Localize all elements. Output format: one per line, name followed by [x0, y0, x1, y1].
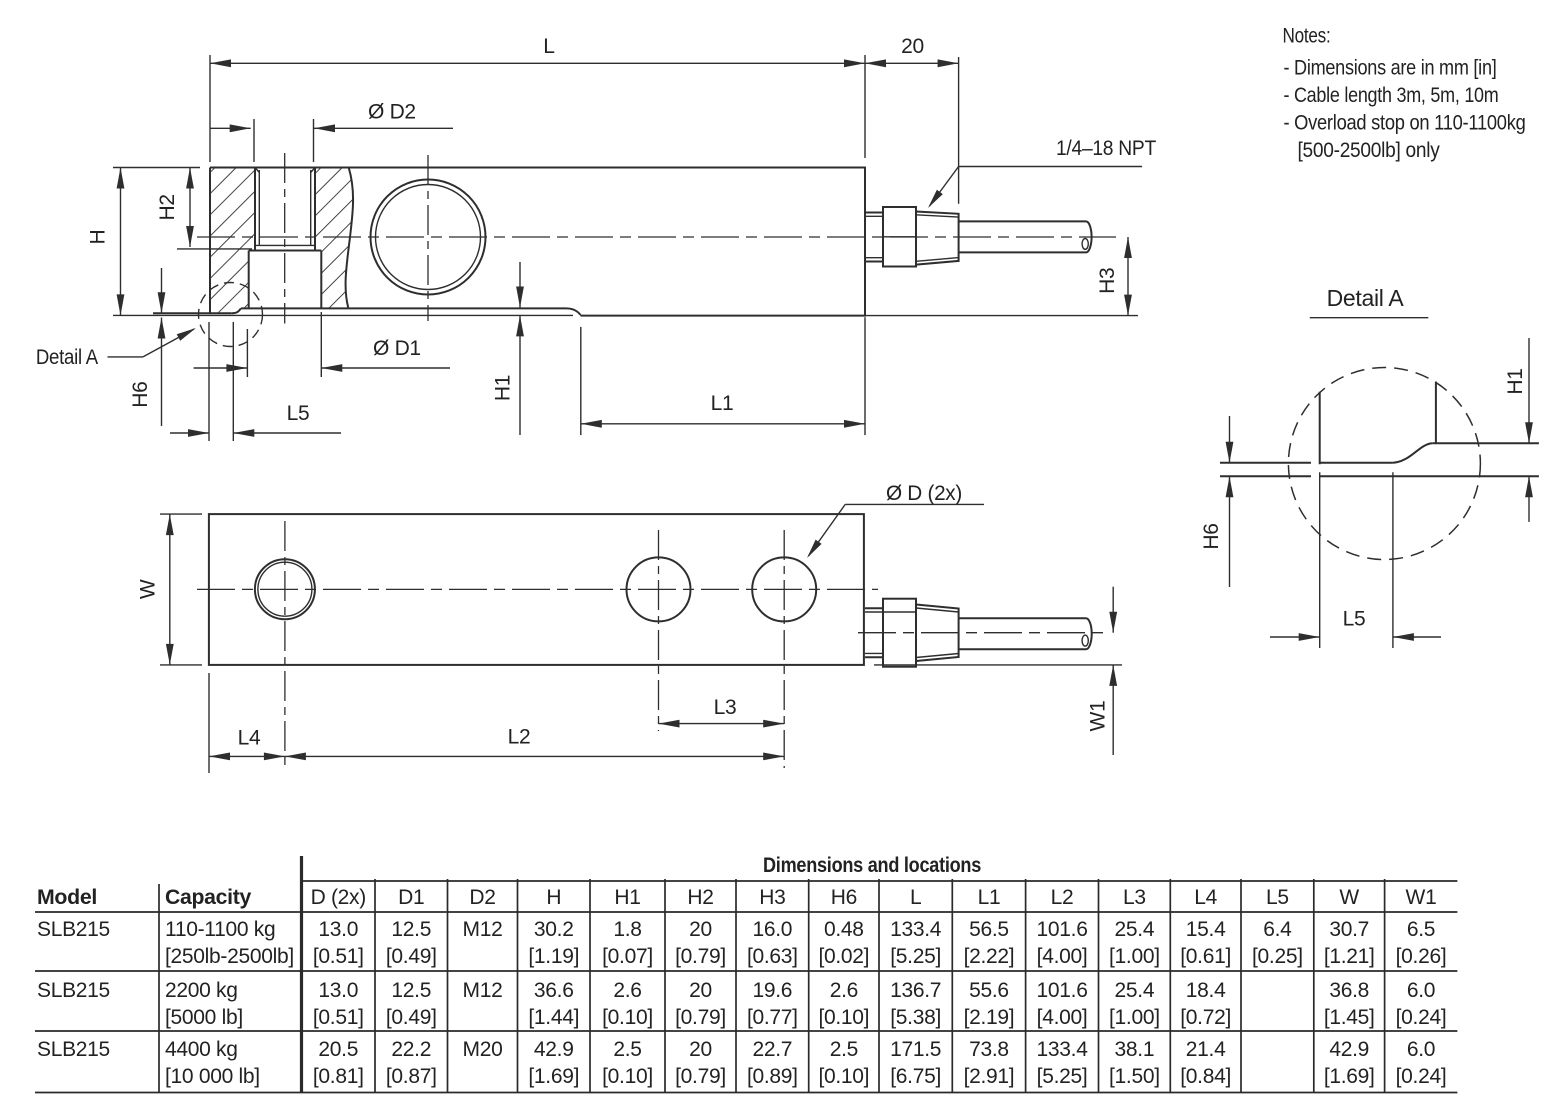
top view: middle mounting hole: [627, 557, 691, 621]
svg-text:- Dimensions are in mm [in]: - Dimensions are in mm [in]: [1284, 57, 1497, 80]
svg-text:56.5: 56.5: [969, 918, 1009, 941]
svg-text:[2.22]: [2.22]: [964, 945, 1015, 968]
svg-text:[0.61]: [0.61]: [1180, 945, 1231, 968]
dimension L: right arrow: [844, 59, 865, 67]
svg-text:H6: H6: [831, 886, 857, 909]
svg-text:W1: W1: [1086, 701, 1109, 732]
svg-text:18.4: 18.4: [1186, 979, 1226, 1002]
cable gland top: nipple thread lines: [865, 607, 883, 609]
svg-text:[500-2500lb] only: [500-2500lb] only: [1298, 139, 1441, 162]
dimension 20: right extension line: [958, 57, 960, 204]
side view: counterbore walls: [248, 251, 250, 309]
side view: counterbore step line: [249, 250, 322, 252]
detail A view: title underline: [1310, 317, 1429, 319]
svg-text:D2: D2: [469, 886, 495, 909]
svg-text:[0.49]: [0.49]: [386, 945, 437, 968]
svg-text:[5.25]: [5.25]: [890, 945, 941, 968]
detail A view: pad top line: [1220, 462, 1311, 464]
dimension W1: bottom extension line: [874, 664, 1122, 666]
svg-text:[0.72]: [0.72]: [1180, 1006, 1231, 1029]
svg-text:[0.49]: [0.49]: [386, 1006, 437, 1029]
dimension D1: dimension lines: [194, 367, 248, 369]
svg-text:55.6: 55.6: [969, 979, 1009, 1002]
svg-text:- Cable length 3m, 5m, 10m: - Cable length 3m, 5m, 10m: [1284, 84, 1499, 107]
svg-text:19.6: 19.6: [753, 979, 793, 1002]
svg-text:30.7: 30.7: [1329, 918, 1369, 941]
svg-text:[0.26]: [0.26]: [1396, 945, 1447, 968]
table: model/capacity divider: [158, 884, 160, 1093]
svg-text:[0.79]: [0.79]: [675, 945, 726, 968]
dimension H3: dimension line: [1127, 237, 1129, 316]
dimension H3: bottom extension line: [865, 315, 1138, 317]
svg-text:2.5: 2.5: [613, 1038, 641, 1061]
svg-text:[0.87]: [0.87]: [386, 1065, 437, 1088]
svg-text:[1.00]: [1.00]: [1109, 945, 1160, 968]
svg-text:W: W: [136, 579, 159, 599]
svg-text:30.2: 30.2: [534, 918, 574, 941]
cable gland side: cone body: [916, 212, 959, 265]
svg-text:Detail A: Detail A: [36, 346, 98, 369]
svg-text:[1.19]: [1.19]: [528, 945, 579, 968]
dimension W1: lower arrow line: [1112, 665, 1114, 755]
svg-text:13.0: 13.0: [318, 979, 358, 1002]
dimension D1: arrows: [226, 364, 247, 372]
svg-text:133.4: 133.4: [890, 918, 942, 941]
svg-text:[0.79]: [0.79]: [675, 1065, 726, 1088]
svg-text:[1.45]: [1.45]: [1324, 1006, 1375, 1029]
svg-text:H1: H1: [491, 375, 514, 401]
dimension L2: dimension line: [285, 755, 784, 757]
svg-text:L: L: [910, 886, 921, 909]
svg-text:20.5: 20.5: [318, 1038, 358, 1061]
side view: break line (partial section boundary): [346, 168, 354, 308]
svg-text:H1: H1: [1504, 368, 1527, 394]
svg-text:[2.91]: [2.91]: [964, 1065, 1015, 1088]
dimension L5 side: extension lines: [208, 322, 210, 441]
detail A indicator: leader line: [108, 356, 144, 358]
svg-text:1.8: 1.8: [613, 918, 641, 941]
svg-text:L2: L2: [508, 725, 531, 748]
label 1/4-18 NPT: leader line: [959, 166, 1142, 168]
svg-text:[0.51]: [0.51]: [313, 1006, 364, 1029]
svg-text:[6.75]: [6.75]: [890, 1065, 941, 1088]
svg-text:L3: L3: [1123, 886, 1146, 909]
svg-text:L5: L5: [287, 402, 310, 425]
table: thick capacity/data divider: [300, 856, 303, 1093]
svg-text:36.8: 36.8: [1329, 979, 1369, 1002]
dimension H6 detail: lower arrow line: [1229, 476, 1231, 587]
dimension L4: dimension line: [209, 755, 285, 757]
top view: middle hole vertical centerline: [658, 530, 660, 731]
svg-text:SLB215: SLB215: [37, 1038, 110, 1061]
dimension L3: arrows: [659, 720, 680, 728]
side view: threaded hole minor lines: [258, 170, 260, 245]
dimension 20: left arrow: [865, 59, 886, 67]
side view: cross hole outer circle: [371, 180, 486, 295]
svg-text:L4: L4: [238, 726, 261, 749]
side view: load cell body outline: [210, 168, 865, 316]
svg-text:[10 000 lb]: [10 000 lb]: [165, 1065, 260, 1088]
svg-text:L4: L4: [1194, 886, 1217, 909]
svg-text:[0.77]: [0.77]: [747, 1006, 798, 1029]
dimension H6 side: lower arrow line: [161, 318, 163, 427]
table: bottom rule: [35, 1092, 1457, 1094]
svg-text:M20: M20: [463, 1038, 503, 1061]
table: span header underline: [302, 880, 1458, 882]
svg-text:L1: L1: [711, 392, 734, 415]
dimension H1 detail: lower arrow line: [1528, 476, 1530, 522]
svg-text:[0.24]: [0.24]: [1396, 1065, 1447, 1088]
svg-text:13.0: 13.0: [318, 918, 358, 941]
svg-text:[0.81]: [0.81]: [313, 1065, 364, 1088]
dimension H: arrows: [117, 168, 125, 189]
dimension W: arrows: [166, 514, 174, 535]
svg-text:[0.51]: [0.51]: [313, 945, 364, 968]
dimension L3: dimension line: [659, 723, 785, 725]
svg-text:[0.24]: [0.24]: [1396, 1006, 1447, 1029]
side view: hatching left section block: [210, 168, 255, 314]
svg-text:[0.84]: [0.84]: [1180, 1065, 1231, 1088]
dimension L1: extension lines: [580, 327, 582, 435]
side view: cross hole inner circle: [376, 185, 481, 290]
dimension L2: arrows: [285, 753, 306, 761]
svg-text:Dimensions and locations: Dimensions and locations: [763, 854, 981, 877]
svg-text:W1: W1: [1406, 886, 1437, 909]
cable gland side: hex nut: [883, 207, 916, 267]
dimension L1: arrows: [581, 420, 602, 428]
svg-text:H2: H2: [156, 194, 179, 220]
svg-text:[1.00]: [1.00]: [1109, 1006, 1160, 1029]
svg-text:SLB215: SLB215: [37, 979, 110, 1002]
svg-text:42.9: 42.9: [1329, 1038, 1369, 1061]
table: column dividers: [374, 879, 376, 1093]
dimension H3: arrows: [1124, 237, 1132, 258]
dimension H2: arrows: [186, 168, 194, 189]
svg-text:20: 20: [689, 979, 712, 1002]
svg-text:L5: L5: [1266, 886, 1289, 909]
svg-text:136.7: 136.7: [890, 979, 941, 1002]
label D 2x: leader line: [845, 503, 984, 505]
dimension H6 detail: upper arrow line: [1229, 416, 1231, 463]
dimension 20: right arrow: [938, 59, 959, 67]
svg-text:D (2x): D (2x): [311, 886, 366, 909]
svg-text:L5: L5: [1343, 608, 1366, 631]
cable top: cable outline: [959, 617, 1086, 619]
svg-text:[0.10]: [0.10]: [818, 1006, 869, 1029]
svg-text:Detail A: Detail A: [1327, 285, 1405, 311]
svg-text:20: 20: [689, 918, 712, 941]
svg-text:Notes:: Notes:: [1283, 25, 1331, 48]
cable gland top: cone body: [916, 605, 959, 662]
svg-text:[1.50]: [1.50]: [1109, 1065, 1160, 1088]
dimension D2: arrows: [230, 124, 251, 132]
dimension W: extension lines: [160, 513, 202, 515]
side view: threaded hole M-thread major lines: [254, 168, 256, 251]
svg-text:H6: H6: [129, 381, 152, 407]
side view: bottom relief line of beam: [241, 307, 566, 309]
top view: threaded hole vertical centerline: [284, 521, 286, 768]
dimension L/20: shared extension line: [864, 55, 866, 158]
detail A view: left cut edge: [1319, 392, 1321, 464]
svg-text:H: H: [546, 886, 561, 909]
svg-text:[5000 lb]: [5000 lb]: [165, 1006, 243, 1029]
svg-text:2.5: 2.5: [830, 1038, 858, 1061]
table: header row bottom rule: [35, 911, 1457, 913]
svg-text:Ø D1: Ø D1: [373, 337, 421, 360]
dimension L5 detail: arrows: [1299, 633, 1320, 641]
svg-text:[0.79]: [0.79]: [675, 1006, 726, 1029]
svg-text:2.6: 2.6: [613, 979, 641, 1002]
svg-text:0.48: 0.48: [824, 918, 864, 941]
side view: main horizontal centerline: [197, 236, 1116, 238]
top view: body outline: [209, 514, 864, 665]
svg-text:171.5: 171.5: [890, 1038, 941, 1061]
dimension L5 detail: extension lines: [1319, 472, 1321, 648]
detail A view: ground line: [1220, 475, 1311, 477]
label D 2x: leader arrow: [807, 540, 822, 558]
svg-text:Ø D (2x): Ø D (2x): [886, 482, 962, 505]
svg-text:- Overload stop on 110-1100kg: - Overload stop on 110-1100kg: [1284, 112, 1526, 135]
cable gland side: nipple thread lines: [865, 212, 883, 214]
svg-text:[4.00]: [4.00]: [1037, 945, 1088, 968]
dimension H6 side: upper arrow line: [161, 268, 163, 313]
svg-text:Capacity: Capacity: [165, 886, 252, 909]
svg-text:M12: M12: [463, 918, 503, 941]
cable side: cable outline: [959, 220, 1086, 222]
svg-text:22.2: 22.2: [391, 1038, 431, 1061]
svg-text:6.5: 6.5: [1407, 918, 1435, 941]
svg-text:M12: M12: [463, 979, 503, 1002]
svg-text:25.4: 25.4: [1115, 979, 1155, 1002]
svg-text:[5.38]: [5.38]: [890, 1006, 941, 1029]
cable side: cable rounded end: [1086, 221, 1092, 252]
svg-text:L3: L3: [714, 696, 737, 719]
cable top: cable rounded end: [1086, 618, 1092, 649]
svg-text:Ø D2: Ø D2: [368, 101, 416, 124]
svg-text:[5.25]: [5.25]: [1037, 1065, 1088, 1088]
svg-text:2.6: 2.6: [830, 979, 858, 1002]
svg-text:110-1100 kg: 110-1100 kg: [165, 918, 275, 941]
svg-text:W: W: [1339, 886, 1359, 909]
dimension L: left extension line: [209, 55, 211, 162]
svg-text:42.9: 42.9: [534, 1038, 574, 1061]
svg-text:D1: D1: [398, 886, 424, 909]
top view: threaded hole inner circle: [258, 562, 312, 616]
svg-text:21.4: 21.4: [1186, 1038, 1226, 1061]
svg-text:H2: H2: [687, 886, 713, 909]
svg-text:[0.89]: [0.89]: [747, 1065, 798, 1088]
side view: cross hole vertical centerline: [427, 155, 429, 321]
svg-text:133.4: 133.4: [1037, 1038, 1089, 1061]
svg-text:101.6: 101.6: [1037, 979, 1088, 1002]
top view: right mounting hole: [752, 557, 816, 621]
svg-text:H6: H6: [1200, 523, 1223, 549]
svg-text:20: 20: [901, 35, 924, 58]
dimension L5 side: arrows: [188, 429, 209, 437]
svg-text:16.0: 16.0: [753, 918, 793, 941]
top view: main horizontal centerline: [197, 588, 878, 590]
cable top: cable centerline: [858, 632, 1105, 634]
svg-text:[4.00]: [4.00]: [1037, 1006, 1088, 1029]
svg-text:2200 kg: 2200 kg: [165, 979, 238, 1002]
svg-text:L2: L2: [1051, 886, 1074, 909]
svg-text:[2.19]: [2.19]: [964, 1006, 1015, 1029]
svg-text:15.4: 15.4: [1186, 918, 1226, 941]
dimension H1 side: upper arrow line: [519, 262, 521, 308]
dimension W1: upper arrow line: [1112, 587, 1114, 633]
svg-text:SLB215: SLB215: [37, 918, 110, 941]
dimension D2: extension lines: [253, 119, 255, 162]
detail A indicator: dashed circle: [199, 283, 263, 347]
svg-text:[0.63]: [0.63]: [747, 945, 798, 968]
svg-text:1/4–18 NPT: 1/4–18 NPT: [1056, 137, 1156, 160]
dimension L4: left extension line: [208, 673, 210, 773]
side view: hatching right section block: [315, 168, 353, 308]
svg-text:H3: H3: [1096, 268, 1119, 294]
dimension L5 side: dimension lines: [170, 432, 209, 434]
svg-text:12.5: 12.5: [391, 918, 431, 941]
svg-text:[1.69]: [1.69]: [528, 1065, 579, 1088]
dimension H: dimension line: [120, 168, 122, 316]
dimension H: top extension line: [113, 167, 200, 169]
svg-text:6.0: 6.0: [1407, 1038, 1435, 1061]
side view: thread vertical centerline: [284, 153, 286, 324]
svg-text:101.6: 101.6: [1037, 918, 1088, 941]
dimension H2: bottom extension line: [177, 248, 252, 250]
label 1/4-18 NPT: leader arrow: [928, 190, 943, 208]
svg-text:[1.69]: [1.69]: [1324, 1065, 1375, 1088]
detail A indicator: leader arrow: [177, 328, 196, 341]
svg-text:25.4: 25.4: [1115, 918, 1155, 941]
svg-text:38.1: 38.1: [1115, 1038, 1155, 1061]
top view: right hole vertical centerline: [783, 530, 785, 768]
dimension L: left arrow: [210, 59, 231, 67]
svg-text:20: 20: [689, 1038, 712, 1061]
detail A view: relief fillet curve: [1393, 443, 1432, 463]
svg-text:[250lb-2500lb]: [250lb-2500lb]: [165, 945, 294, 968]
svg-text:H1: H1: [614, 886, 640, 909]
svg-text:[0.10]: [0.10]: [602, 1006, 653, 1029]
svg-text:[0.10]: [0.10]: [602, 1065, 653, 1088]
dimension L1: dimension line: [581, 423, 865, 425]
side view: ground line under foot (H extension): [113, 314, 573, 316]
svg-text:12.5: 12.5: [391, 979, 431, 1002]
table: row 1 bottom rule: [35, 970, 1457, 972]
svg-text:[1.44]: [1.44]: [528, 1006, 579, 1029]
svg-text:[0.10]: [0.10]: [818, 1065, 869, 1088]
dimension L5 detail: dimension lines: [1270, 636, 1320, 638]
side view: thread top chamfers: [255, 168, 259, 173]
dimension H1 side: lower arrow line: [519, 315, 521, 435]
dimension D1: extension lines: [246, 329, 248, 377]
svg-text:36.6: 36.6: [534, 979, 574, 1002]
svg-text:6.0: 6.0: [1407, 979, 1435, 1002]
dimension H2: dimension line: [189, 168, 191, 248]
svg-text:L: L: [543, 35, 554, 58]
svg-text:Model: Model: [37, 886, 97, 909]
svg-text:[0.25]: [0.25]: [1252, 945, 1303, 968]
svg-text:[1.21]: [1.21]: [1324, 945, 1375, 968]
svg-text:22.7: 22.7: [753, 1038, 793, 1061]
svg-text:73.8: 73.8: [969, 1038, 1009, 1061]
svg-text:H: H: [86, 230, 109, 245]
dimension L: dimension line: [210, 62, 959, 64]
table: row 2 bottom rule: [35, 1030, 1457, 1032]
dimension H1 detail: upper arrow line: [1528, 338, 1530, 443]
svg-text:H3: H3: [759, 886, 785, 909]
dimension L4: arrows: [209, 753, 230, 761]
detail A view: right cut edge: [1435, 382, 1437, 444]
dimension D2: dimension lines: [210, 127, 251, 129]
svg-text:L1: L1: [978, 886, 1001, 909]
svg-text:4400 kg: 4400 kg: [165, 1038, 238, 1061]
detail A view: dashed boundary circle: [1288, 368, 1480, 560]
side view: mounting pad top line with H6 extension: [153, 312, 232, 314]
top view: threaded hole outer circle: [255, 559, 315, 619]
svg-text:[0.07]: [0.07]: [602, 945, 653, 968]
detail A view: beam bottom line: [1432, 442, 1539, 444]
svg-text:6.4: 6.4: [1263, 918, 1292, 941]
svg-text:[0.02]: [0.02]: [818, 945, 869, 968]
dimension W: dimension line: [169, 514, 171, 665]
cable gland top: hex nut: [883, 599, 916, 667]
